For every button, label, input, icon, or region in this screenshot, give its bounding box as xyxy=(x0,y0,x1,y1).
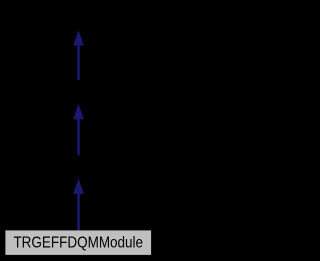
node TRGEFFDQMModule xyxy=(5,230,151,255)
inheritance arrow 2 (middle) xyxy=(73,104,84,155)
svg-text:TRGEFFDQMModule: TRGEFFDQMModule xyxy=(13,235,143,252)
inheritance arrow 1 (top) xyxy=(73,30,84,80)
inheritance arrow 3 (bottom) xyxy=(73,179,84,231)
